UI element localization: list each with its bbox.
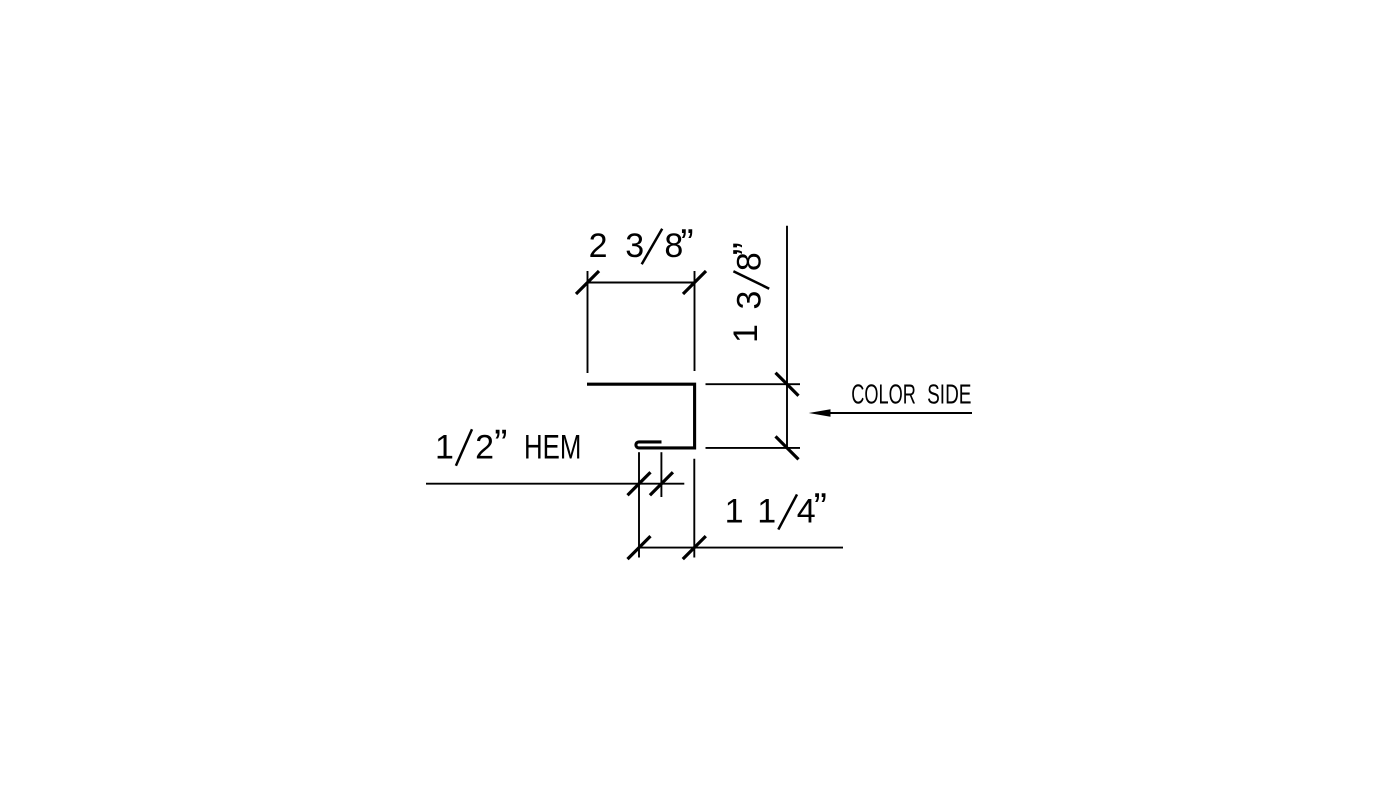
svg-text:1: 1 [757, 493, 776, 531]
svg-text:HEM: HEM [524, 428, 581, 466]
svg-text:1: 1 [435, 428, 454, 466]
svg-text:1: 1 [727, 324, 765, 343]
svg-text:”: ” [494, 422, 507, 466]
svg-text:1: 1 [725, 493, 744, 531]
svg-text:2: 2 [589, 227, 608, 265]
svg-text:3: 3 [625, 227, 644, 265]
svg-text:”: ” [680, 222, 693, 266]
svg-text:2: 2 [475, 428, 494, 466]
svg-text:COLOR: COLOR [851, 379, 916, 410]
svg-text:”: ” [726, 242, 770, 255]
svg-text:SIDE: SIDE [927, 379, 971, 410]
svg-text:3: 3 [731, 291, 769, 310]
svg-text:”: ” [814, 486, 827, 530]
